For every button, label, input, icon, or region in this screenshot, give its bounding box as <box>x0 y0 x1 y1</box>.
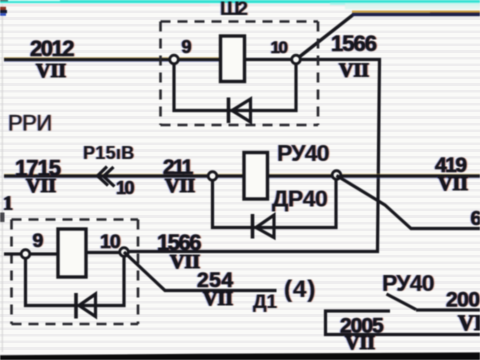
node right of РУ40 <box>332 171 341 180</box>
wire: 2012 feed into top relay box <box>4 58 220 61</box>
contact РУ40 blade <box>387 294 417 310</box>
svg-text:(4): (4) <box>284 276 316 303</box>
node 10 (Ш2) <box>292 55 301 64</box>
svg-text:9: 9 <box>33 230 44 252</box>
wire: diagonal from node right of РУ40 down to wire 6 <box>337 176 480 229</box>
svg-text:1: 1 <box>3 193 13 215</box>
svg-text:6: 6 <box>471 208 480 230</box>
node 10 (Д1) <box>120 248 129 257</box>
svg-text:9: 9 <box>182 37 192 57</box>
diode VД1 triangle <box>232 99 251 122</box>
svg-text:Р15ıВ: Р15ıВ <box>83 143 135 163</box>
svg-text:200: 200 <box>446 289 480 312</box>
connector arrow chevrons <box>98 167 109 186</box>
svg-text:10: 10 <box>100 231 121 253</box>
diode Д1 triangle <box>79 294 96 317</box>
wire: bypass loop in box Ш2 <box>174 60 296 111</box>
svg-text:10: 10 <box>271 38 288 57</box>
svg-text:VII: VII <box>203 288 233 310</box>
stray mark left edge <box>0 213 5 223</box>
wire: top-right horizontal with chroma fringe <box>345 3 480 9</box>
wire: diagonal 254 branch <box>124 252 277 291</box>
wire: coil Ш2 right lead to corner, down to bottom 1566 wire, to node 10 of box Д1 <box>124 60 380 252</box>
svg-text:РУ40: РУ40 <box>382 270 434 296</box>
diode ДР40 triangle <box>256 215 274 238</box>
svg-text:VII: VII <box>36 60 66 82</box>
svg-text:1566: 1566 <box>331 31 377 56</box>
svg-text:РРИ: РРИ <box>8 111 52 136</box>
svg-text:VII: VII <box>339 60 369 82</box>
svg-text:ДР40: ДР40 <box>272 186 327 212</box>
svg-text:10: 10 <box>116 178 135 198</box>
bottom black video band <box>0 352 480 360</box>
svg-text:VII: VII <box>170 251 200 273</box>
relay coil Д1 <box>58 229 86 277</box>
svg-text:РУ40: РУ40 <box>277 140 329 166</box>
VHS color blob top-left <box>0 7 6 10</box>
left video edge <box>2 4 4 352</box>
wire: bypass loop Д1 <box>26 252 125 306</box>
node 9 (Д1) <box>21 250 30 259</box>
wire: main middle bus 1715/211/419 <box>4 174 480 177</box>
diode VД1 cathode bar <box>227 98 231 124</box>
node 9 (Ш2) <box>170 55 179 64</box>
svg-text:VII: VII <box>438 173 468 195</box>
top cyan video band <box>0 0 480 3</box>
wire: bypass loop РУ40 <box>213 175 337 228</box>
node left of РУ40 <box>208 172 217 181</box>
svg-text:2012: 2012 <box>30 36 74 61</box>
svg-text:VII: VII <box>345 332 375 354</box>
wire: diagonal from node 10 up to top-right <box>296 15 353 60</box>
wire chroma fringe <box>4 57 220 59</box>
dashed enclosure Д1 <box>12 220 139 325</box>
svg-text:Ш2: Ш2 <box>220 0 248 20</box>
relay coil РУ40 <box>244 153 268 200</box>
wire: contact right lead 200 <box>416 308 480 311</box>
svg-text:Д1: Д1 <box>253 292 278 313</box>
svg-text:VII: VII <box>165 175 195 197</box>
diode Д1 cathode bar <box>74 293 78 319</box>
svg-text:VII: VII <box>26 175 56 197</box>
wire: feed into box Д1 <box>4 252 58 255</box>
relay coil Ш2 <box>221 36 245 82</box>
diode ДР40 cathode bar <box>251 214 255 239</box>
wire: 2005 L-shaped run <box>326 311 480 335</box>
wire: coil Д1 right lead <box>86 251 124 254</box>
dashed enclosure Ш2 <box>161 22 319 126</box>
svg-text:VII: VII <box>458 310 480 335</box>
